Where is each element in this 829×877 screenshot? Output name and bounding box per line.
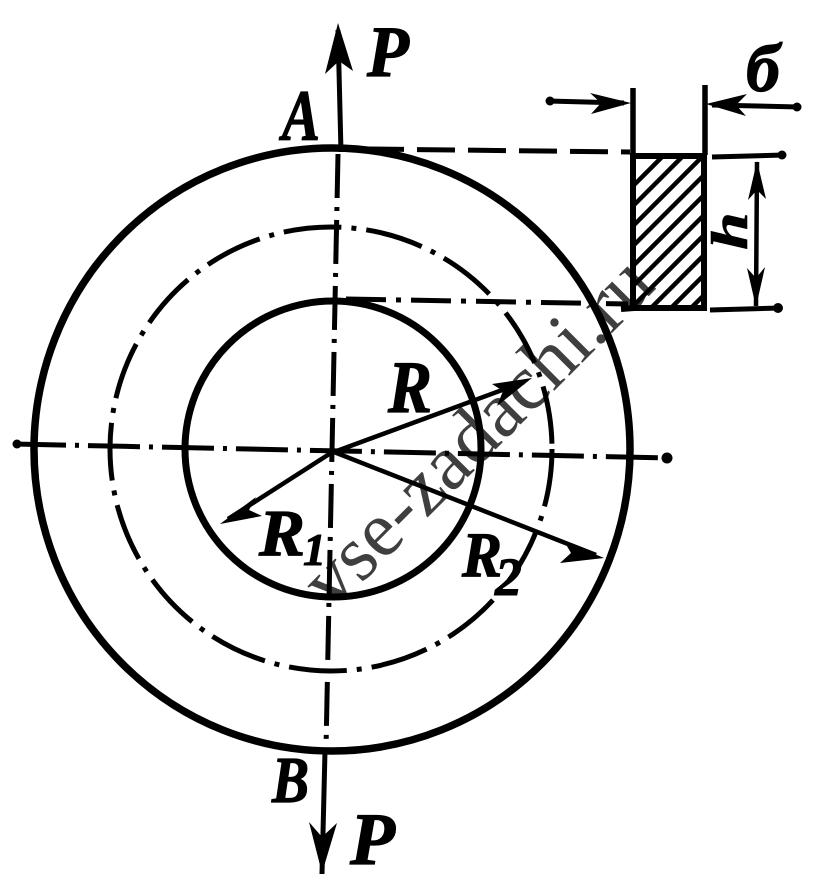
svg-text:P: P: [349, 799, 396, 877]
label R1: [258, 497, 326, 575]
node A: [279, 76, 320, 156]
svg-text:P: P: [366, 12, 410, 92]
svg-text:2: 2: [494, 547, 522, 607]
radius arrow R1: [220, 451, 334, 524]
force arrow P bottom: [309, 751, 337, 874]
label b: [746, 30, 783, 106]
outer circle R2: [34, 148, 630, 751]
middle dash-dot circle R: [110, 227, 552, 671]
svg-text:A: A: [279, 76, 320, 156]
section extension line right: [702, 85, 708, 155]
svg-text:h: h: [702, 212, 759, 250]
label P top: [366, 12, 410, 92]
horizontal centerline: [13, 440, 673, 464]
label R: [387, 347, 432, 429]
force arrow P top: [325, 23, 353, 152]
leader dash-dot line bottom (inner circle top to section bottom): [346, 299, 628, 304]
svg-text:B: B: [271, 744, 309, 817]
label P bottom: [349, 799, 396, 877]
dimension arrow b left: [546, 93, 632, 114]
leader dashed line top (A to section top): [366, 149, 630, 152]
svg-text:R: R: [387, 347, 432, 429]
dimension line h: [710, 151, 787, 314]
dimension arrow b right: [706, 94, 802, 116]
vertical centerline: [326, 154, 338, 748]
watermark vse-zadachi.ru: [284, 239, 670, 625]
label h: [702, 212, 759, 250]
svg-text:б: б: [746, 30, 783, 106]
inner circle R1: [185, 301, 481, 597]
node B: [271, 744, 309, 817]
svg-text:R: R: [258, 497, 305, 570]
section extension line left: [630, 88, 636, 157]
radius arrow R: [334, 378, 532, 452]
svg-text:1: 1: [303, 524, 326, 575]
radius arrow R2: [334, 452, 604, 563]
section rectangle: [621, 156, 704, 309]
label R2: [461, 519, 522, 607]
section hatching: [510, 155, 829, 309]
